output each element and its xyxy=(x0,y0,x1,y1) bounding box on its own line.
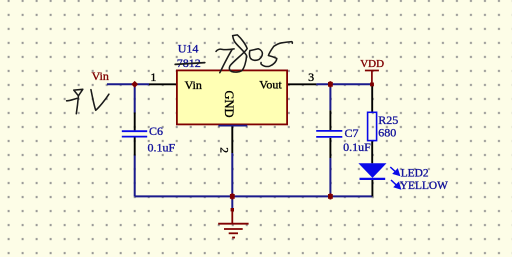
svg-text:1: 1 xyxy=(150,70,156,84)
svg-text:U14: U14 xyxy=(178,41,199,55)
svg-text:2: 2 xyxy=(218,147,230,153)
svg-text:C7: C7 xyxy=(345,126,359,140)
svg-text:3: 3 xyxy=(308,70,314,84)
svg-text:YELLOW: YELLOW xyxy=(400,180,448,192)
svg-text:Vin: Vin xyxy=(185,78,202,92)
svg-text:GND: GND xyxy=(222,91,236,118)
svg-text:0.1uF: 0.1uF xyxy=(343,140,371,154)
svg-text:0.1uF: 0.1uF xyxy=(148,141,176,155)
svg-text:LED2: LED2 xyxy=(401,167,429,179)
svg-text:C6: C6 xyxy=(149,124,163,138)
svg-text:Vin: Vin xyxy=(92,69,109,83)
svg-text:Vout: Vout xyxy=(259,77,282,91)
svg-text:VDD: VDD xyxy=(360,58,384,70)
svg-text:680: 680 xyxy=(378,126,396,140)
